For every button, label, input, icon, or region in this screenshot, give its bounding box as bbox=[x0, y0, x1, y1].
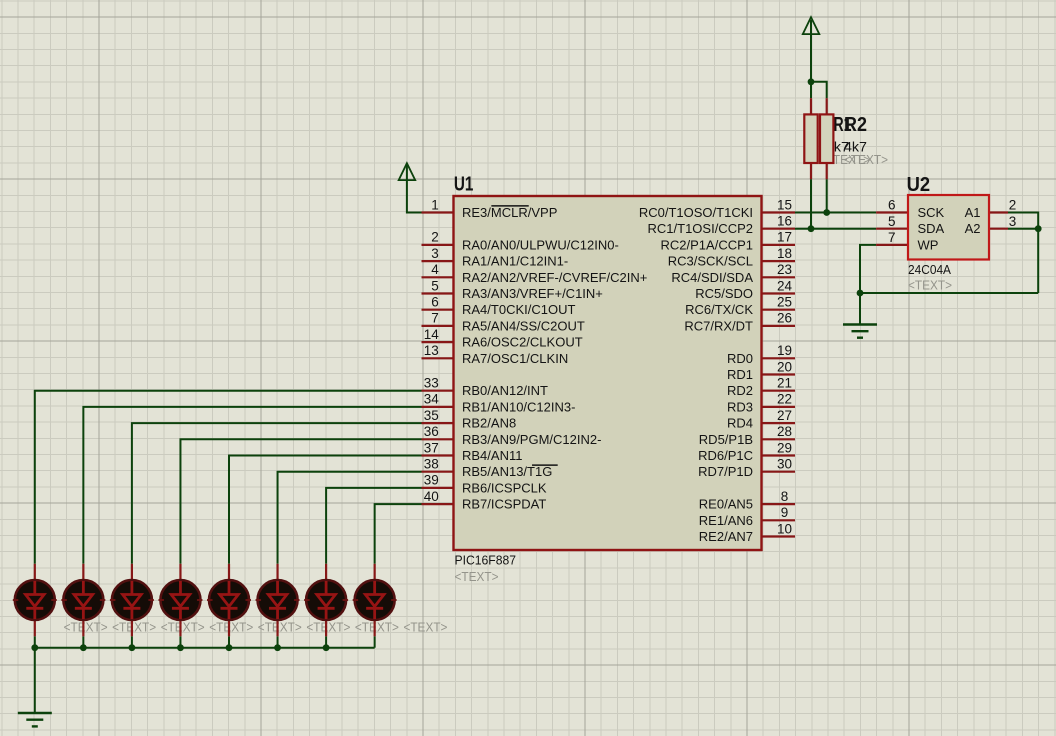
resistor R1 bottom pin bbox=[810, 163, 812, 179]
svg-text:<TEXT>: <TEXT> bbox=[306, 621, 350, 635]
svg-text:RC7/RX/DT: RC7/RX/DT bbox=[684, 318, 753, 333]
svg-text:RA4/T0CKI/C1OUT: RA4/T0CKI/C1OUT bbox=[462, 302, 575, 317]
LED D2 bbox=[61, 564, 105, 637]
wire LED D7 cathode to bus bbox=[325, 636, 327, 647]
svg-text:SDA: SDA bbox=[918, 221, 945, 236]
svg-text:RE1/AN6: RE1/AN6 bbox=[699, 513, 753, 528]
svg-text:RD2: RD2 bbox=[727, 383, 753, 398]
LED D7 bbox=[304, 564, 348, 637]
svg-text:<TEXT>: <TEXT> bbox=[112, 621, 156, 635]
svg-text:RD6/P1C: RD6/P1C bbox=[698, 448, 753, 463]
wire net RB7: U1 pin 40 to LED D8 bbox=[375, 504, 422, 564]
wire power arrow VCC to R1/R2 top junction bbox=[810, 20, 812, 98]
svg-text:7: 7 bbox=[888, 230, 896, 245]
svg-text:16: 16 bbox=[777, 214, 792, 229]
svg-text:<TEXT>: <TEXT> bbox=[161, 621, 205, 635]
svg-text:RA0/AN0/ULPWU/C12IN0-: RA0/AN0/ULPWU/C12IN0- bbox=[462, 237, 619, 252]
overline on MCLR (pin 1 name) bbox=[491, 205, 528, 207]
wire net RB5: U1 pin 38 to LED D6 bbox=[278, 472, 422, 564]
junction dot LED D6 on cathode bus bbox=[274, 644, 281, 651]
junction dot LED D1 on cathode bus bbox=[31, 644, 38, 651]
wire net RB6: U1 pin 39 to LED D7 bbox=[326, 488, 421, 564]
svg-text:RD1: RD1 bbox=[727, 367, 753, 382]
wire LED D3 cathode to bus bbox=[131, 636, 133, 647]
resistor R2 top pin bbox=[826, 98, 828, 114]
svg-text:35: 35 bbox=[424, 408, 439, 423]
svg-text:5: 5 bbox=[888, 214, 896, 229]
U2 right pin stubs (A1,A2) bbox=[989, 211, 1008, 213]
svg-text:WP: WP bbox=[918, 237, 939, 252]
power symbol VCC (left, to MCLR) bbox=[399, 163, 416, 180]
chip U1 PIC16F887 body bbox=[454, 196, 762, 550]
svg-text:38: 38 bbox=[424, 457, 439, 472]
resistor R2 body bbox=[820, 114, 833, 163]
svg-text:7: 7 bbox=[431, 311, 439, 326]
svg-text:2: 2 bbox=[1009, 198, 1017, 213]
junction dot R2 on SCK net bbox=[823, 209, 830, 216]
junction dot A2 net bbox=[1035, 225, 1042, 232]
svg-text:4: 4 bbox=[431, 262, 439, 277]
svg-text:RD5/P1B: RD5/P1B bbox=[699, 432, 753, 447]
wire bottom run A1/A2 to ground node bbox=[860, 292, 1038, 294]
junction dot at VCC/R1/R2 branch bbox=[808, 78, 815, 85]
LED D5 bbox=[207, 564, 251, 637]
svg-text:RC5/SDO: RC5/SDO bbox=[695, 286, 753, 301]
power symbol VCC (top right) bbox=[803, 17, 820, 34]
svg-text:RE0/AN5: RE0/AN5 bbox=[699, 497, 753, 512]
svg-text:21: 21 bbox=[777, 376, 792, 391]
svg-text:3: 3 bbox=[431, 246, 439, 261]
svg-text:6: 6 bbox=[888, 198, 896, 213]
svg-text:37: 37 bbox=[424, 440, 439, 455]
svg-text:5: 5 bbox=[431, 278, 439, 293]
junction dot R1 on SDA net bbox=[808, 225, 815, 232]
LED D8 bbox=[353, 564, 397, 637]
svg-text:27: 27 bbox=[777, 408, 792, 423]
svg-text:SCK: SCK bbox=[918, 205, 945, 220]
junction dot LED D2 on cathode bus bbox=[80, 644, 87, 651]
svg-text:U2: U2 bbox=[907, 174, 931, 196]
svg-text:22: 22 bbox=[777, 392, 792, 407]
svg-text:R2: R2 bbox=[844, 114, 867, 136]
wire R2 bottom to net SCK row bbox=[826, 179, 828, 212]
svg-text:24C04A: 24C04A bbox=[908, 262, 951, 277]
resistor R1 body bbox=[804, 114, 817, 163]
wire net RB2: U1 pin 35 to LED D3 bbox=[132, 423, 422, 564]
svg-text:1: 1 bbox=[431, 197, 439, 212]
wire net RB0: U1 pin 33 to LED D1 bbox=[35, 391, 422, 564]
LED D3 bbox=[110, 564, 154, 637]
svg-text:RA2/AN2/VREF-/CVREF/C2IN+: RA2/AN2/VREF-/CVREF/C2IN+ bbox=[462, 270, 647, 285]
svg-text:2: 2 bbox=[431, 230, 439, 245]
wire LED D1 cathode to bus bbox=[34, 636, 36, 647]
svg-text:19: 19 bbox=[777, 343, 792, 358]
svg-text:U1: U1 bbox=[454, 174, 474, 196]
U2 left pin stubs (SCK,SDA,WP) bbox=[876, 211, 908, 213]
svg-text:RC2/P1A/CCP1: RC2/P1A/CCP1 bbox=[661, 237, 753, 252]
svg-text:RC3/SCK/SCL: RC3/SCK/SCL bbox=[668, 254, 753, 269]
svg-text:A2: A2 bbox=[965, 221, 981, 236]
wire LED D4 cathode to bus bbox=[179, 636, 181, 647]
svg-text:RB6/ICSPCLK: RB6/ICSPCLK bbox=[462, 480, 547, 495]
wire branch to R2 top bbox=[811, 82, 827, 98]
wire LED cathode bus bbox=[35, 647, 375, 649]
overline on T1G (RB5 name) bbox=[532, 464, 558, 466]
junction dot LED D7 on cathode bus bbox=[323, 644, 330, 651]
svg-text:<TEXT>: <TEXT> bbox=[455, 570, 499, 584]
wire LED D2 cathode to bus bbox=[82, 636, 84, 647]
svg-text:10: 10 bbox=[777, 521, 792, 536]
chip U2 24C04A body bbox=[908, 195, 989, 260]
resistor R2 bottom pin bbox=[826, 163, 828, 179]
svg-text:40: 40 bbox=[424, 489, 439, 504]
wire U2 A2 pin3 right bbox=[1008, 228, 1038, 230]
svg-text:13: 13 bbox=[424, 343, 439, 358]
svg-text:20: 20 bbox=[777, 359, 792, 374]
svg-text:RD3: RD3 bbox=[727, 399, 753, 414]
svg-text:25: 25 bbox=[777, 295, 792, 310]
svg-text:<TEXT>: <TEXT> bbox=[64, 621, 108, 635]
svg-text:A1: A1 bbox=[965, 205, 981, 220]
svg-text:<TEXT>: <TEXT> bbox=[908, 279, 952, 293]
svg-text:15: 15 bbox=[777, 197, 792, 212]
svg-text:<TEXT>: <TEXT> bbox=[209, 621, 253, 635]
svg-text:RB1/AN10/C12IN3-: RB1/AN10/C12IN3- bbox=[462, 399, 575, 414]
svg-text:33: 33 bbox=[424, 376, 439, 391]
svg-text:30: 30 bbox=[777, 457, 792, 472]
wire bus to ground symbol bottom-left bbox=[34, 648, 36, 713]
svg-text:RD7/P1D: RD7/P1D bbox=[698, 464, 753, 479]
ground symbol bottom left bbox=[18, 712, 52, 714]
wire LED D6 cathode to bus bbox=[277, 636, 279, 647]
svg-text:RB4/AN11: RB4/AN11 bbox=[462, 448, 522, 463]
wire U2 A1 pin2 right and down bbox=[1008, 213, 1038, 294]
svg-text:3: 3 bbox=[1009, 214, 1017, 229]
junction dot LED D5 on cathode bus bbox=[226, 644, 233, 651]
resistor R1 top pin bbox=[810, 98, 812, 114]
svg-text:23: 23 bbox=[777, 262, 792, 277]
wire R1 bottom to net SDA row bbox=[810, 179, 812, 229]
U1 left pin stubs bbox=[422, 211, 454, 213]
wire LED D8 cathode to bus bbox=[374, 636, 376, 647]
svg-text:RA5/AN4/SS/C2OUT: RA5/AN4/SS/C2OUT bbox=[462, 318, 585, 333]
svg-text:8: 8 bbox=[781, 489, 789, 504]
wire U1 pin16 RC1 to U2 SDA bbox=[795, 228, 876, 230]
LED D4 bbox=[158, 564, 202, 637]
svg-text:PIC16F887: PIC16F887 bbox=[455, 553, 517, 568]
LED D6 bbox=[256, 564, 300, 637]
svg-text:RA7/OSC1/CLKIN: RA7/OSC1/CLKIN bbox=[462, 351, 568, 366]
svg-text:RD0: RD0 bbox=[727, 351, 753, 366]
svg-text:RB2/AN8: RB2/AN8 bbox=[462, 416, 516, 431]
svg-text:17: 17 bbox=[777, 230, 792, 245]
wire net RB1: U1 pin 34 to LED D2 bbox=[83, 407, 421, 564]
ground symbol under U2 bbox=[843, 323, 877, 325]
svg-text:<TEXT>: <TEXT> bbox=[258, 621, 302, 635]
wire ground node down to ground symbol bbox=[859, 293, 861, 325]
wire U2 WP to ground node bbox=[860, 245, 876, 293]
svg-text:RC1/T1OSI/CCP2: RC1/T1OSI/CCP2 bbox=[648, 221, 753, 236]
wire LED D5 cathode to bus bbox=[228, 636, 230, 647]
svg-text:RB3/AN9/PGM/C12IN2-: RB3/AN9/PGM/C12IN2- bbox=[462, 432, 601, 447]
svg-text:28: 28 bbox=[777, 424, 792, 439]
svg-text:39: 39 bbox=[424, 473, 439, 488]
svg-text:<TEXT>: <TEXT> bbox=[355, 621, 399, 635]
svg-text:RB0/AN12/INT: RB0/AN12/INT bbox=[462, 383, 548, 398]
svg-text:<TEXT>: <TEXT> bbox=[844, 153, 888, 167]
svg-text:36: 36 bbox=[424, 424, 439, 439]
svg-text:9: 9 bbox=[781, 505, 789, 520]
wire net RB4: U1 pin 37 to LED D5 bbox=[229, 456, 422, 564]
svg-text:RC0/T1OSO/T1CKI: RC0/T1OSO/T1CKI bbox=[639, 205, 753, 220]
wire net RB3: U1 pin 36 to LED D4 bbox=[180, 439, 421, 564]
svg-text:RD4: RD4 bbox=[727, 416, 753, 431]
svg-text:RA3/AN3/VREF+/C1IN+: RA3/AN3/VREF+/C1IN+ bbox=[462, 286, 603, 301]
svg-text:RC6/TX/CK: RC6/TX/CK bbox=[685, 302, 753, 317]
junction dot LED D4 on cathode bus bbox=[177, 644, 184, 651]
svg-text:24: 24 bbox=[777, 278, 793, 293]
svg-text:29: 29 bbox=[777, 440, 792, 455]
svg-text:14: 14 bbox=[424, 327, 440, 342]
svg-text:RB7/ICSPDAT: RB7/ICSPDAT bbox=[462, 497, 546, 512]
LED D1 bbox=[13, 564, 57, 637]
svg-text:18: 18 bbox=[777, 246, 792, 261]
svg-text:RB5/AN13/T1G: RB5/AN13/T1G bbox=[462, 464, 552, 479]
svg-text:6: 6 bbox=[431, 295, 439, 310]
svg-text:RC4/SDI/SDA: RC4/SDI/SDA bbox=[671, 270, 753, 285]
U1 right pin stubs bbox=[762, 211, 796, 213]
svg-text:RA1/AN1/C12IN1-: RA1/AN1/C12IN1- bbox=[462, 254, 568, 269]
wire power arrow to U1 pin1 bbox=[407, 165, 422, 213]
svg-text:<TEXT>: <TEXT> bbox=[403, 621, 447, 635]
svg-text:34: 34 bbox=[424, 392, 440, 407]
svg-text:RA6/OSC2/CLKOUT: RA6/OSC2/CLKOUT bbox=[462, 335, 583, 350]
svg-text:RE3/MCLR/VPP: RE3/MCLR/VPP bbox=[462, 205, 557, 220]
svg-text:26: 26 bbox=[777, 311, 792, 326]
junction dot LED D3 on cathode bus bbox=[129, 644, 136, 651]
junction dot WP/ground net bbox=[857, 290, 864, 297]
svg-text:RE2/AN7: RE2/AN7 bbox=[699, 529, 753, 544]
wire U1 pin15 RC0 to U2 SCK bbox=[795, 212, 876, 214]
